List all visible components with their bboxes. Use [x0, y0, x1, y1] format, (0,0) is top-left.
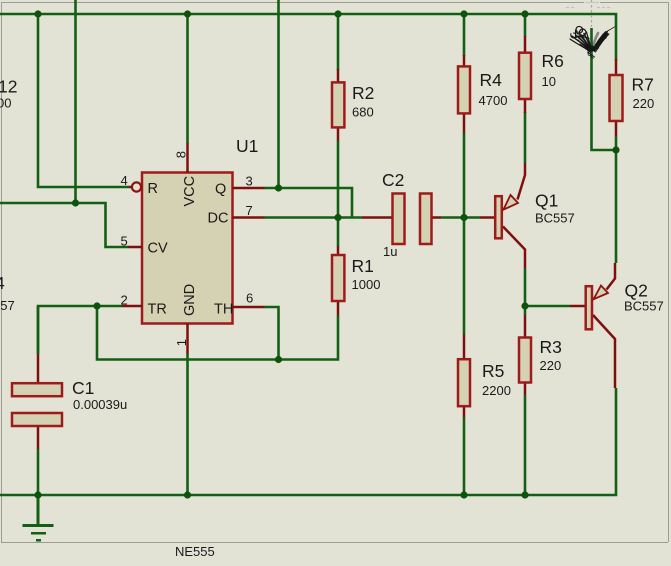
R2 value — [352, 105, 374, 120]
node rail-pin8 — [184, 10, 191, 17]
U1 pin name GND — [182, 284, 198, 316]
pin number 8 — [173, 151, 188, 158]
pin number 4 — [121, 173, 128, 188]
node CV tap — [72, 199, 79, 206]
resistor R2 — [332, 69, 344, 141]
U1 reference label — [236, 136, 258, 156]
wire VCC top rail — [0, 14, 616, 60]
partial label R12 — [0, 77, 17, 97]
ink scribble annotation — [570, 27, 615, 59]
R3 value — [540, 358, 562, 373]
U1 pin name Q — [215, 182, 226, 198]
status text NE555 — [175, 544, 215, 559]
wire C1 top — [37, 306, 40, 354]
ghost dashed wire remnant — [566, 0, 612, 27]
node gnd R5 — [460, 491, 467, 498]
node C2-R4-base — [460, 214, 467, 221]
svg-text:R1: R1 — [352, 256, 374, 276]
wire control-voltage feed from top — [74, 0, 77, 203]
wire TH pin6 branch — [265, 307, 279, 360]
svg-text:R4: R4 — [480, 70, 503, 90]
pin 2 stub — [122, 305, 142, 308]
svg-text:Q2: Q2 — [625, 281, 648, 301]
node TH-TR-R1 — [275, 356, 282, 363]
svg-text:R3: R3 — [540, 337, 562, 357]
pin number 5 — [121, 234, 128, 249]
svg-text:C2: C2 — [382, 170, 404, 190]
pin number 1 — [174, 339, 189, 346]
pin number 3 — [246, 174, 253, 189]
partial label Q4 — [0, 273, 5, 293]
svg-text:2200: 2200 — [482, 383, 511, 398]
svg-text:4700: 4700 — [479, 93, 508, 108]
svg-text:220: 220 — [540, 358, 562, 373]
svg-text:10: 10 — [542, 74, 556, 89]
wire R2-R1 column — [337, 14, 340, 246]
pin 3 stub — [233, 187, 265, 190]
U1 pin name DC — [208, 211, 229, 227]
svg-text:BC557: BC557 — [535, 211, 575, 226]
svg-text:U1: U1 — [236, 136, 258, 156]
wire Q1 collector to node — [524, 268, 527, 315]
resistor R5 — [458, 334, 470, 417]
wire DC pin7 net — [265, 216, 363, 219]
pin 1 stub — [186, 324, 189, 355]
svg-text:00: 00 — [0, 96, 11, 111]
R4 value — [479, 93, 508, 108]
Q1 label — [535, 191, 558, 211]
svg-text:R2: R2 — [352, 83, 374, 103]
transistor Q1 BC557 — [480, 163, 525, 268]
node rail-R2 — [334, 10, 341, 17]
R4 label — [480, 70, 503, 90]
R5 label — [482, 361, 504, 381]
R6 label — [542, 51, 564, 71]
svg-text:12: 12 — [0, 77, 17, 97]
Q2 type BC557 — [624, 299, 664, 314]
partial value of R12 — [0, 96, 11, 111]
wire R6 column — [524, 14, 527, 163]
svg-text:TR: TR — [148, 302, 167, 318]
wire R4-R5 column — [463, 14, 466, 495]
node gnd pin1 — [184, 491, 191, 498]
svg-text:R: R — [148, 181, 158, 197]
Q1 type BC557 — [535, 211, 575, 226]
svg-text:8: 8 — [173, 151, 188, 158]
wire pin8 VCC drop — [186, 14, 189, 143]
svg-text:BC557: BC557 — [624, 299, 664, 314]
svg-text:Q: Q — [215, 182, 226, 198]
node rail-R4col — [34, 10, 41, 17]
C2 label — [382, 170, 404, 190]
svg-text:6: 6 — [246, 291, 253, 306]
resistor R3 — [519, 315, 531, 395]
C1 value — [73, 397, 127, 412]
C1 label — [72, 378, 94, 398]
pin 5 stub — [128, 246, 142, 249]
capacitor C2 — [362, 194, 441, 245]
R7 value — [633, 96, 655, 111]
svg-text:TH: TH — [214, 302, 233, 318]
svg-text:R7: R7 — [632, 75, 654, 95]
ground — [23, 495, 54, 540]
pin 7 stub — [233, 216, 265, 219]
svg-text:557: 557 — [0, 298, 15, 313]
resistor R7 — [610, 59, 623, 136]
svg-text:4: 4 — [0, 273, 5, 293]
pin 4 stub with bubble — [129, 182, 141, 191]
svg-text:2: 2 — [121, 293, 128, 308]
wire pin1 GND drop — [186, 354, 189, 495]
svg-text:1u: 1u — [383, 244, 397, 259]
U1 pin name TH — [214, 302, 233, 318]
svg-text:220: 220 — [633, 96, 655, 111]
R2 label — [352, 83, 374, 103]
R6 value — [542, 74, 556, 89]
U1 pin name CV — [148, 241, 168, 257]
wire C1 bottom — [37, 449, 40, 495]
node junction dots — [34, 10, 619, 498]
svg-text:R5: R5 — [482, 361, 504, 381]
node R7 bottom — [612, 146, 619, 153]
svg-text:1000: 1000 — [352, 277, 381, 292]
wire node to Q2 base — [525, 305, 570, 308]
U1 pin name R — [148, 181, 158, 197]
node DC-R2-R1 — [334, 214, 341, 221]
node rail-R6 — [521, 10, 528, 17]
svg-text:5: 5 — [121, 234, 128, 249]
svg-text:DC: DC — [208, 211, 229, 227]
node Q1 collector R3 Q2 base — [521, 302, 528, 309]
svg-text:1: 1 — [174, 339, 189, 346]
svg-text:4: 4 — [121, 173, 128, 188]
pin number 7 — [246, 203, 253, 218]
wire R3 bottom — [524, 395, 527, 495]
resistor R6 — [519, 36, 531, 113]
wire R7 bottom net — [615, 136, 618, 263]
svg-text:CV: CV — [148, 241, 168, 257]
wire ground bottom rail — [0, 388, 616, 495]
svg-text:680: 680 — [352, 105, 374, 120]
op: IC U1 NE555 body — [142, 173, 233, 324]
U1 pin name TR — [148, 302, 167, 318]
svg-text:7: 7 — [246, 203, 253, 218]
node Q wire tap — [275, 184, 282, 191]
wire reset pin4 net — [38, 14, 129, 187]
resistor R4 — [458, 55, 470, 133]
pin 8 stub — [186, 143, 189, 173]
resistor R1 — [332, 246, 344, 316]
wire CV pin5 net — [0, 203, 128, 247]
R7 label — [632, 75, 654, 95]
node TR tap — [93, 302, 100, 309]
svg-text:Q1: Q1 — [535, 191, 558, 211]
U1 pin name VCC — [182, 176, 198, 207]
wire Q output pin3 net — [265, 0, 353, 218]
R3 label — [540, 337, 562, 357]
node gnd C1 — [34, 491, 41, 498]
svg-text:0.00039u: 0.00039u — [73, 397, 127, 412]
transistor Q2 BC557 — [570, 263, 615, 388]
node gnd R3 — [521, 491, 528, 498]
R1 value — [352, 277, 381, 292]
node rail-R4 — [460, 10, 467, 17]
wire scribbled branch — [592, 28, 617, 150]
Q2 label — [625, 281, 648, 301]
C2 value — [383, 244, 397, 259]
pin number 6 — [246, 291, 253, 306]
svg-text:C1: C1 — [72, 378, 94, 398]
R5 value — [482, 383, 511, 398]
wire TR pin2 net — [38, 306, 338, 360]
partial type BC557 of Q4 — [0, 298, 15, 313]
svg-text:NE555: NE555 — [175, 544, 215, 559]
pin 6 stub — [233, 306, 265, 309]
svg-text:VCC: VCC — [182, 176, 198, 207]
svg-text:3: 3 — [246, 174, 253, 189]
pin number 2 — [121, 293, 128, 308]
R1 label — [352, 256, 374, 276]
svg-text:R6: R6 — [542, 51, 564, 71]
svg-text:GND: GND — [182, 284, 198, 316]
capacitor C1 — [12, 354, 62, 449]
wire C2 to Q1 base — [441, 216, 480, 219]
